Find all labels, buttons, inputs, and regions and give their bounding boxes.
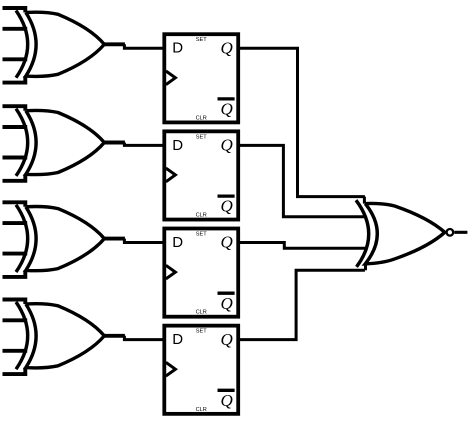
svg-text:CLR: CLR [196,213,207,219]
output stub of G2 [104,141,125,145]
overbar of Q-bar of FF3 [218,292,235,295]
clock edge triangle of FF2 [166,168,176,182]
body of FF3 [164,229,238,317]
svg-text:Q: Q [221,100,233,119]
xnor double-line arc of G5 [356,200,369,267]
wire G3 output to FF3 D input [124,239,165,243]
svg-text:Q: Q [221,233,233,252]
svg-text:SET: SET [196,329,207,335]
svg-text:Q: Q [221,135,233,154]
svg-text:SET: SET [196,37,207,43]
body of G1 [26,12,105,76]
XOR gate G4 [3,300,125,375]
D flip-flop FF2 [164,131,238,219]
clock edge triangle of FF4 [166,362,176,376]
body of G4 [26,304,105,368]
body of G2 [26,110,105,174]
D flip-flop FF4 [164,326,238,414]
svg-text:D: D [172,40,183,57]
xor double-line arc of G3 [16,205,28,272]
input stubs of G2 [3,106,28,181]
output stub of G4 [104,334,125,338]
svg-text:CLR: CLR [196,407,207,413]
wire FF1 Q to XNOR input 1 [238,48,365,196]
xor double-line arc of G1 [16,11,28,78]
input stubs of G1 [3,8,28,83]
XOR gate G2 [3,106,125,181]
svg-text:SET: SET [196,134,207,140]
clock edge triangle of FF1 [166,71,176,85]
xor double-line arc of G4 [16,302,28,369]
svg-text:CLR: CLR [196,115,207,121]
input stubs of G3 [3,202,28,277]
input wing jogs of G5 [364,197,365,271]
svg-text:SET: SET [196,232,207,238]
input stubs of G4 [3,300,28,375]
XNOR gate G5 [356,197,453,271]
wire FF3 Q to XNOR input 3 [238,243,366,249]
XOR gate G3 [3,202,125,277]
body of G3 [26,206,105,270]
wire G4 output to FF4 D input [124,336,165,340]
body of FF4 [164,326,238,414]
svg-text:Q: Q [221,391,233,410]
wire FF2 Q to XNOR input 2 [238,145,366,216]
xor double-line arc of G2 [16,109,28,176]
svg-text:CLR: CLR [196,310,207,316]
overbar of Q-bar of FF4 [218,389,235,392]
svg-text:Q: Q [221,38,233,57]
svg-text:D: D [172,137,183,154]
overbar of Q-bar of FF1 [218,97,235,100]
svg-text:Q: Q [221,294,233,313]
wire G1 output to FF1 D input [124,44,165,48]
output stub of G1 [104,42,125,46]
svg-text:D: D [172,331,183,348]
svg-text:Q: Q [221,330,233,349]
output stub of G3 [104,237,125,241]
body of FF2 [164,131,238,219]
output wire of G5 [454,231,467,234]
body of G5 [365,203,445,263]
inversion bubble of G5 [447,229,454,236]
overbar of Q-bar of FF2 [218,194,235,197]
D flip-flop FF3 [164,229,238,317]
XOR gate G1 [3,8,125,83]
wire G2 output to FF2 D input [124,143,165,146]
wire FF4 Q to XNOR input 4 [238,270,365,339]
D flip-flop FF1 [164,34,238,122]
svg-text:D: D [172,234,183,251]
svg-text:Q: Q [221,197,233,216]
body of FF1 [164,34,238,122]
clock edge triangle of FF3 [166,265,176,279]
